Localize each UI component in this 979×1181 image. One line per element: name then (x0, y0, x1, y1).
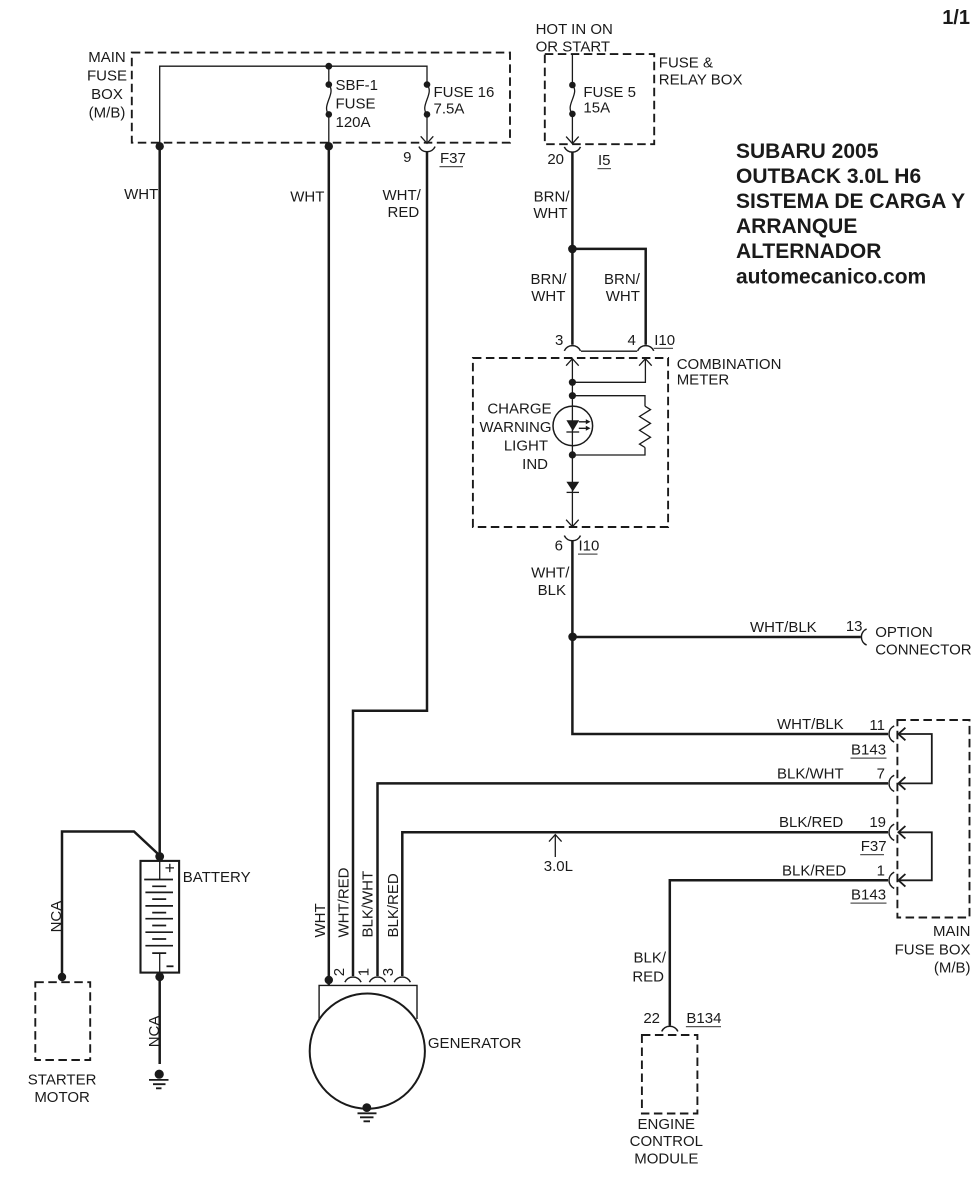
connector 6 (564, 536, 580, 541)
wire NCA starter branch (62, 832, 160, 978)
battery internal plates (144, 861, 173, 972)
connector generator pin 1 (345, 977, 361, 982)
generator terminal box (319, 985, 417, 1019)
junction dot meter 3 (569, 451, 576, 458)
label B143 upper (851, 742, 887, 759)
label GENERATOR (428, 1035, 522, 1052)
junction dot meter 1 (569, 379, 576, 386)
pin 1 (877, 863, 885, 880)
svg-text:HOT IN ON: HOT IN ON (536, 21, 613, 38)
svg-text:22: 22 (643, 1010, 660, 1027)
3.0L arrow (549, 835, 562, 857)
svg-text:BRN/: BRN/ (534, 189, 571, 206)
label COMBINATION METER (677, 356, 782, 388)
svg-text:15A: 15A (583, 100, 610, 117)
junction dot option branch (568, 633, 577, 642)
label F37 right (860, 838, 886, 855)
svg-text:F37: F37 (861, 838, 887, 855)
svg-text:WHT: WHT (533, 205, 567, 222)
arrow down to connector 6 (566, 520, 579, 527)
title block (736, 140, 965, 288)
connector strip line I10 (581, 350, 637, 352)
svg-text:19: 19 (869, 814, 886, 831)
label FUSE 5 15A (583, 84, 636, 117)
pin 3 (555, 332, 563, 349)
rotated label BLK/RED (385, 873, 402, 937)
wire WHT/RED from F37 to generator pin 1 (353, 152, 427, 976)
wire WHT battery feed (158, 146, 161, 855)
svg-text:ALTERNADOR: ALTERNADOR (736, 240, 881, 263)
label BLK/RED vertical (632, 950, 666, 986)
label MAIN FUSE BOX (M/B) right (895, 923, 971, 977)
rotated pin 3 (380, 968, 397, 976)
junction dot box exit left (156, 142, 164, 150)
svg-text:FUSE: FUSE (336, 96, 376, 113)
svg-text:20: 20 (547, 151, 564, 168)
svg-text:BLK/WHT: BLK/WHT (360, 871, 377, 938)
svg-text:SUBARU 2005: SUBARU 2005 (736, 140, 879, 163)
MAIN FUSE BOX (M/B) dashed box top-left (132, 53, 510, 143)
connector 13 (861, 629, 866, 645)
label 3.0L (544, 858, 573, 875)
svg-text:RELAY BOX: RELAY BOX (659, 71, 743, 88)
svg-text:FUSE 16: FUSE 16 (434, 84, 495, 101)
arrow into pin 7 (898, 777, 905, 790)
label BRN/WHT lower-left (531, 271, 568, 305)
svg-text:F37: F37 (440, 150, 466, 167)
label WHT 2 (290, 189, 324, 206)
label BATTERY (183, 869, 251, 886)
label NCA starter (48, 901, 65, 933)
wire BRN/WHT branch to meter pin 4 (572, 249, 645, 345)
svg-text:BLK/RED: BLK/RED (385, 873, 402, 937)
svg-text:1: 1 (877, 863, 885, 880)
connector 11 (889, 726, 894, 742)
label NCA battery (146, 1016, 163, 1048)
ENGINE CONTROL MODULE dashed box (642, 1035, 698, 1114)
arrow up into connector 3 (566, 359, 579, 366)
svg-text:B143: B143 (851, 742, 886, 759)
svg-text:FUSE: FUSE (87, 68, 127, 85)
pin 13 (846, 618, 863, 635)
fuse FUSE 5 15A (569, 82, 576, 143)
svg-text:WHT/RED: WHT/RED (336, 867, 353, 937)
svg-text:SISTEMA DE CARGA Y: SISTEMA DE CARGA Y (736, 190, 965, 213)
svg-text:STARTER: STARTER (28, 1072, 97, 1089)
FUSE &amp; RELAY BOX dashed box (545, 54, 654, 144)
svg-text:OPTION: OPTION (875, 624, 933, 641)
label BLK/RED pin19 (779, 814, 843, 831)
label F37 (440, 150, 466, 167)
connector F37 (419, 147, 435, 152)
label BRN/WHT lower-right (604, 271, 641, 305)
svg-text:6: 6 (555, 538, 563, 555)
svg-text:1: 1 (355, 968, 372, 976)
MAIN FUSE BOX (M/B) dashed box right (897, 720, 969, 918)
pin 22 (643, 1010, 660, 1027)
label WHT (124, 186, 158, 203)
battery plus sign (166, 864, 175, 872)
svg-text:OR START: OR START (536, 38, 610, 55)
svg-text:MAIN: MAIN (88, 49, 126, 66)
junction dot box exit middle (325, 142, 333, 150)
svg-text:13: 13 (846, 618, 863, 635)
wire to option connector (573, 636, 861, 639)
wire BLK/WHT generator pin 2 to fuse box pin 7 (378, 783, 889, 976)
svg-text:WHT: WHT (531, 288, 565, 305)
label SBF-1 FUSE 120A (336, 77, 379, 131)
label WHT/BLK pin11 (777, 716, 844, 733)
rotated label WHT/RED (336, 867, 353, 937)
pin 20 (547, 151, 564, 168)
label I10 top (654, 332, 675, 349)
battery box (141, 861, 180, 973)
svg-text:CHARGE: CHARGE (487, 401, 551, 418)
svg-text:4: 4 (627, 332, 635, 349)
svg-text:ARRANQUE: ARRANQUE (736, 215, 857, 238)
pin 9 (403, 149, 411, 166)
svg-text:ENGINE: ENGINE (638, 1116, 696, 1133)
svg-text:FUSE BOX: FUSE BOX (895, 942, 971, 959)
svg-text:BLK/RED: BLK/RED (782, 863, 846, 880)
LED triangle (566, 420, 579, 431)
label HOT IN ON OR START (536, 21, 613, 55)
wire WHT generator feed (328, 146, 331, 985)
page number 1/1 (942, 7, 970, 29)
connector 3 (564, 346, 580, 351)
connector I5 (564, 147, 580, 152)
svg-text:GENERATOR: GENERATOR (428, 1035, 522, 1052)
junction dot battery minus (155, 972, 164, 981)
connector 22 (662, 1026, 678, 1031)
junction dot generator pin 2 WHT (325, 976, 333, 984)
label WHT/BLK vertical wire (531, 565, 570, 600)
svg-text:B143: B143 (851, 887, 886, 904)
LED emission arrows (579, 419, 591, 431)
svg-text:BATTERY: BATTERY (183, 869, 251, 886)
junction dot meter 2 (569, 392, 576, 399)
svg-text:OUTBACK 3.0L H6: OUTBACK 3.0L H6 (736, 165, 921, 188)
junction dot starter (58, 973, 66, 981)
label STARTER MOTOR (28, 1072, 97, 1106)
svg-text:1/1: 1/1 (942, 7, 970, 29)
svg-text:I10: I10 (654, 332, 675, 349)
label B134 (686, 1010, 722, 1027)
COMBINATION METER dashed box (473, 358, 668, 527)
svg-text:CONTROL: CONTROL (630, 1133, 703, 1150)
fuse FUSE 16 7.5A (424, 81, 431, 142)
svg-text:I5: I5 (598, 152, 611, 169)
wire BLK/RED generator pin 3 to fuse box pin 19 (402, 832, 888, 976)
svg-text:LIGHT: LIGHT (504, 438, 548, 455)
pin 6 (555, 538, 563, 555)
svg-text:MAIN: MAIN (933, 923, 971, 940)
svg-text:B134: B134 (686, 1010, 721, 1027)
svg-text:RED: RED (632, 969, 664, 986)
ground symbol generator (358, 1103, 377, 1121)
arrow into pin 19 (898, 826, 905, 839)
generator circle (310, 994, 425, 1109)
svg-text:BLK: BLK (538, 582, 566, 599)
label CHARGE WARNING LIGHT IND (480, 401, 552, 474)
wire resistor branch (572, 396, 645, 455)
pin 7 (877, 766, 885, 783)
svg-text:BRN/: BRN/ (531, 271, 568, 288)
wire into fuse 5 (571, 55, 573, 86)
wire BRN/WHT fuse 5 to meter pin 3 (571, 152, 574, 345)
wire loop pin 19 to pin 1 (900, 832, 932, 880)
svg-text:WARNING: WARNING (480, 419, 552, 436)
svg-text:MOTOR: MOTOR (34, 1089, 90, 1106)
rotated label BLK/WHT (360, 871, 377, 938)
junction dot battery plus (155, 852, 164, 861)
label FUSE & RELAY BOX (659, 54, 743, 88)
connector 7 (889, 775, 894, 791)
svg-text:WHT: WHT (312, 903, 329, 937)
LED cathode bar (566, 431, 579, 433)
svg-text:NCA: NCA (146, 1016, 163, 1048)
resistor R in meter (640, 406, 651, 447)
svg-text:FUSE 5: FUSE 5 (583, 84, 636, 101)
junction dot BRN/WHT (568, 245, 577, 254)
svg-text:120A: 120A (336, 114, 371, 131)
wire BLK/RED fuse box pin 1 to ECM (670, 880, 888, 1025)
battery minus sign (167, 965, 174, 967)
svg-text:WHT: WHT (124, 186, 158, 203)
svg-text:automecanico.com: automecanico.com (736, 265, 926, 288)
connector generator pin 3 (394, 977, 410, 982)
STARTER MOTOR dashed box (35, 982, 90, 1060)
svg-text:MODULE: MODULE (634, 1150, 698, 1167)
svg-text:WHT/BLK: WHT/BLK (777, 716, 844, 733)
svg-text:7: 7 (877, 766, 885, 783)
charge warning light LED circle (553, 406, 593, 446)
svg-text:9: 9 (403, 149, 411, 166)
fuse SBF-1 120A (326, 81, 333, 144)
pin 19 (869, 814, 886, 831)
connector 4 (638, 346, 654, 351)
svg-text:7.5A: 7.5A (434, 101, 465, 118)
svg-text:IND: IND (522, 456, 548, 473)
ground symbol battery (149, 1070, 169, 1089)
svg-text:WHT/: WHT/ (531, 565, 570, 582)
label WHT/RED (382, 187, 421, 221)
label OPTION CONNECTOR (875, 624, 972, 659)
label BRN/WHT upper (533, 189, 570, 223)
svg-text:3.0L: 3.0L (544, 858, 573, 875)
svg-text:NCA: NCA (48, 901, 65, 933)
svg-text:WHT/: WHT/ (382, 187, 421, 204)
pin 4 (627, 332, 635, 349)
junction dot on bus (325, 63, 332, 70)
svg-text:(M/B): (M/B) (89, 105, 126, 122)
svg-text:I10: I10 (579, 538, 600, 555)
arrow into pin 11 (898, 728, 905, 741)
label WHT/BLK option (750, 619, 817, 636)
label I10 bottom (578, 538, 599, 555)
wire meter internal vertical (571, 359, 573, 526)
label FUSE 16 7.5A (434, 84, 495, 118)
svg-text:RED: RED (388, 204, 420, 221)
label I5 (598, 152, 612, 169)
arrow into pin 1 (898, 874, 905, 887)
svg-text:WHT: WHT (606, 288, 640, 305)
connector 1 (889, 872, 894, 888)
svg-text:(M/B): (M/B) (934, 960, 971, 977)
svg-text:WHT: WHT (290, 189, 324, 206)
diode in meter (566, 482, 579, 493)
wire meter branch from pin 4 (575, 359, 645, 383)
connector generator pin 2 (369, 977, 385, 982)
svg-text:FUSE &: FUSE & (659, 54, 713, 71)
wire WHT/BLK meter out (572, 541, 888, 734)
svg-text:METER: METER (677, 371, 730, 388)
wire NCA battery ground (158, 977, 161, 1064)
label ENGINE CONTROL MODULE (630, 1116, 703, 1168)
label BLK/RED pin1 (782, 863, 846, 880)
svg-text:BLK/WHT: BLK/WHT (777, 766, 844, 783)
arrow into connector I5 (566, 137, 579, 144)
svg-text:BOX: BOX (91, 86, 123, 103)
svg-text:3: 3 (555, 332, 563, 349)
arrow into connector F37 (421, 136, 434, 143)
svg-text:SBF-1: SBF-1 (336, 77, 379, 94)
connector 19 (889, 824, 894, 840)
arrow up into connector 4 (639, 359, 652, 366)
svg-text:WHT/BLK: WHT/BLK (750, 619, 817, 636)
label MAIN FUSE BOX (M/B) (87, 49, 127, 122)
svg-text:CONNECTOR: CONNECTOR (875, 642, 972, 659)
label B143 lower (851, 887, 887, 904)
svg-text:11: 11 (869, 717, 885, 734)
rotated label WHT (312, 903, 329, 937)
svg-text:BLK/: BLK/ (633, 950, 666, 967)
svg-text:BLK/RED: BLK/RED (779, 814, 843, 831)
label BLK/WHT (777, 766, 844, 783)
rotated pin 1 (355, 968, 372, 976)
wire: bus inside main fuse box (160, 66, 427, 144)
pin 11 (869, 717, 885, 734)
svg-text:3: 3 (380, 968, 397, 976)
svg-text:2: 2 (331, 968, 348, 976)
wire loop pin 11 to pin 7 (900, 734, 932, 783)
svg-text:BRN/: BRN/ (604, 271, 641, 288)
rotated pin 2 (331, 968, 348, 976)
